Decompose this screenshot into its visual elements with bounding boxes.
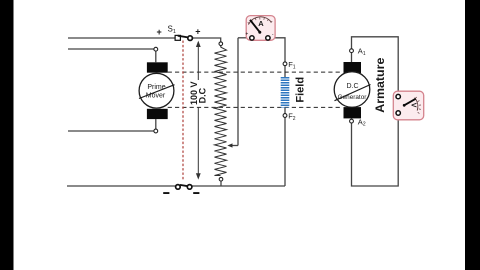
wire: ammeter right branch to field [271, 38, 286, 62]
bottom switch left contact [176, 185, 181, 190]
voltmeter V body [393, 91, 423, 120]
voltmeter top terminal [396, 94, 400, 98]
wire: prime mover top lead [155, 51, 157, 62]
wire: top supply wire left segment [68, 37, 175, 39]
voltmeter bottom terminal [396, 111, 400, 115]
prime mover diagonal slash [139, 85, 175, 99]
voltmeter needle [404, 99, 415, 106]
wire: armature loop top [352, 37, 399, 95]
ammeter right terminal [266, 36, 270, 40]
ammeter A body [246, 16, 275, 41]
node: rheostat bottom terminal [219, 177, 223, 181]
prime mover top brush [147, 62, 168, 72]
wire: field return down to bottom wire [284, 117, 286, 186]
ammeter needle [250, 20, 260, 32]
node F1 [283, 62, 287, 66]
left black pillarbox bar [0, 0, 14, 270]
wire: field bottom stub coil to F2 [284, 108, 286, 114]
wire: armature loop bottom [352, 115, 399, 186]
svg-text:D.C: D.C [346, 83, 358, 90]
svg-text:+: + [195, 26, 200, 36]
right black pillarbox bar [465, 0, 480, 270]
svg-text:Field: Field [295, 77, 307, 103]
prime mover M circle [139, 73, 174, 108]
node: prime mover bottom terminal [154, 129, 158, 133]
voltmeter arc ticks [415, 97, 421, 114]
wire: generator top lead [351, 53, 353, 62]
ammeter left terminal [250, 36, 254, 40]
ammeter scale arc [248, 17, 271, 25]
wire: ammeter left branch horizontal [238, 37, 249, 39]
node: rheostat top terminal [219, 42, 223, 46]
100V dimension arrow lower segment [197, 108, 199, 178]
svg-text:+: + [157, 27, 162, 37]
prime mover bottom brush [147, 109, 168, 119]
wire: second supply wire (to prime mover top) [68, 48, 154, 50]
bottom switch blade [180, 185, 189, 186]
svg-text:Armature: Armature [373, 58, 387, 113]
switch S1 blade [178, 36, 189, 38]
switch S1 right contact [188, 36, 193, 41]
wire: bottom supply wire left of switch [67, 185, 175, 187]
generator bottom brush [344, 107, 362, 118]
ammeter arc ticks [248, 17, 272, 24]
svg-text:V: V [409, 103, 416, 108]
svg-text:Mover: Mover [146, 93, 166, 100]
node F2 [283, 114, 287, 118]
node A2 [350, 119, 354, 123]
wire: rheostat bottom stub [220, 177, 222, 186]
node: prime mover top terminal [154, 47, 158, 51]
wire: field top stub F1 to coil [284, 66, 286, 77]
wire: rheostat top stub [220, 46, 222, 48]
svg-text:A: A [258, 19, 264, 28]
generator circle [334, 72, 370, 108]
svg-text:Prime: Prime [147, 84, 165, 91]
rheostat R (field regulator zigzag) [215, 47, 227, 176]
switch S1 left contact [175, 35, 180, 40]
shaft coupling dashed line upper [168, 71, 343, 73]
wire: ammeter left branch down to wiper [237, 38, 239, 146]
voltmeter scale arc [415, 98, 418, 111]
wire: prime mover bottom lead [155, 119, 157, 129]
generator top brush [344, 62, 362, 73]
field coil (blue) [281, 77, 290, 108]
shaft coupling dashed line lower [168, 106, 343, 108]
bottom switch right contact [187, 185, 192, 190]
wire: bottom supply wire right of switch to field corner [192, 185, 285, 187]
wire: rheostat wiper lead [230, 145, 238, 147]
rheostat wiper arrowhead [227, 143, 232, 147]
red dotted separation line [182, 41, 184, 182]
100V dimension arrow upper segment [197, 42, 199, 80]
wire: lower-left return wire from prime mover [68, 130, 154, 132]
wire: top supply wire right of switch to rheostat corner [192, 38, 220, 42]
generator diagonal slash [335, 85, 371, 101]
label - left of bottom switch [163, 192, 169, 194]
svg-text:+: + [245, 31, 248, 37]
node A1 [350, 49, 354, 53]
label - right of bottom switch [193, 192, 199, 194]
wire: generator bottom lead [351, 117, 353, 120]
